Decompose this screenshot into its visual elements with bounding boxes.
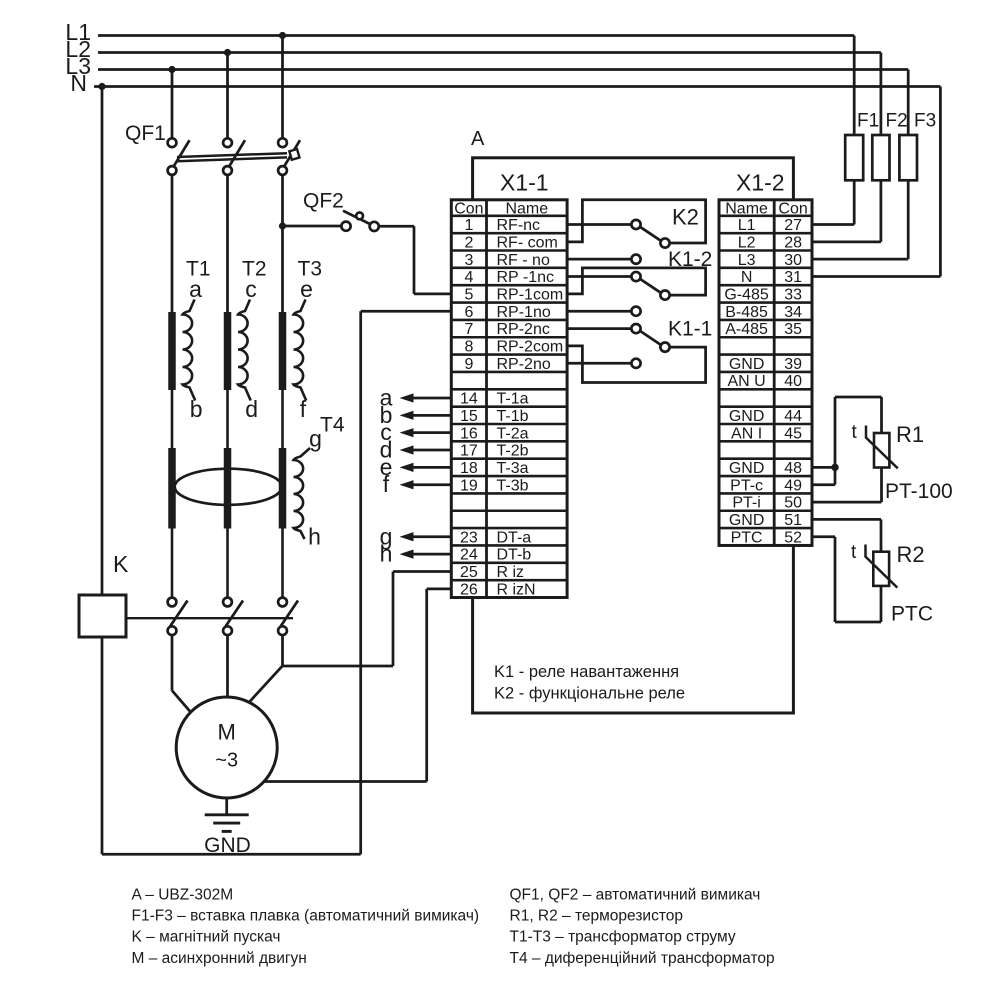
svg-text:35: 35 (784, 321, 802, 338)
svg-text:T-1b: T-1b (497, 408, 529, 425)
svg-text:Name: Name (505, 200, 548, 217)
svg-text:RP-2nc: RP-2nc (497, 321, 550, 338)
svg-text:N: N (741, 269, 753, 286)
svg-text:16: 16 (460, 425, 478, 442)
svg-text:48: 48 (784, 460, 802, 477)
svg-text:24: 24 (460, 547, 478, 564)
svg-text:L3: L3 (738, 252, 756, 269)
svg-text:g: g (309, 426, 322, 452)
svg-text:f: f (383, 471, 390, 497)
svg-text:33: 33 (784, 286, 802, 303)
svg-text:T1-T3 – трансформатор струму: T1-T3 – трансформатор струму (510, 929, 736, 946)
svg-text:GND: GND (729, 356, 765, 373)
svg-text:DT-a: DT-a (497, 529, 532, 546)
svg-text:G-485: G-485 (724, 286, 769, 303)
svg-text:30: 30 (784, 252, 802, 269)
svg-text:h: h (308, 524, 321, 550)
svg-text:Name: Name (725, 200, 768, 217)
svg-text:40: 40 (784, 373, 802, 390)
svg-text:QF1: QF1 (125, 122, 166, 145)
svg-text:e: e (300, 276, 313, 302)
svg-text:R2: R2 (897, 542, 925, 567)
svg-text:GND: GND (729, 408, 765, 425)
svg-text:L2: L2 (738, 234, 756, 251)
svg-text:A – UBZ-302M: A – UBZ-302M (132, 887, 234, 904)
svg-text:F1-F3 – вставка плавка (автома: F1-F3 – вставка плавка (автоматичний вим… (132, 908, 480, 925)
svg-text:9: 9 (464, 356, 473, 373)
svg-text:PT-i: PT-i (732, 495, 760, 512)
svg-text:7: 7 (464, 321, 473, 338)
svg-text:RF-nc: RF-nc (497, 217, 541, 234)
svg-text:a: a (189, 276, 202, 302)
svg-text:T-2b: T-2b (497, 443, 529, 460)
svg-text:F1: F1 (857, 111, 879, 132)
svg-text:19: 19 (460, 477, 478, 494)
svg-text:T4: T4 (320, 414, 345, 437)
svg-text:51: 51 (784, 512, 802, 529)
svg-text:49: 49 (784, 477, 802, 494)
svg-text:RP-1com: RP-1com (497, 286, 564, 303)
svg-text:QF2: QF2 (303, 190, 344, 213)
svg-text:8: 8 (464, 339, 473, 356)
svg-text:K2: K2 (672, 205, 699, 230)
svg-text:4: 4 (464, 269, 473, 286)
svg-text:2: 2 (464, 234, 473, 251)
svg-text:b: b (190, 396, 203, 422)
svg-text:X1-2: X1-2 (736, 170, 785, 196)
svg-text:L1: L1 (738, 217, 756, 234)
svg-text:A-485: A-485 (725, 321, 768, 338)
svg-text:GND: GND (729, 512, 765, 529)
svg-text:45: 45 (784, 425, 802, 442)
svg-text:RP-2no: RP-2no (497, 356, 551, 373)
svg-text:18: 18 (460, 460, 478, 477)
svg-text:Con: Con (454, 200, 483, 217)
svg-text:PTC: PTC (731, 529, 763, 546)
svg-text:K: K (113, 551, 129, 577)
svg-text:RP -1nc: RP -1nc (497, 269, 555, 286)
svg-text:T-3b: T-3b (497, 477, 529, 494)
svg-text:T-1a: T-1a (497, 391, 529, 408)
svg-text:R izN: R izN (497, 581, 536, 598)
svg-text:RP-2com: RP-2com (497, 339, 564, 356)
svg-text:F3: F3 (914, 111, 936, 132)
svg-text:K1 - реле навантаження: K1 - реле навантаження (494, 663, 679, 681)
svg-text:AN I: AN I (731, 425, 762, 442)
svg-text:f: f (300, 396, 307, 422)
svg-text:17: 17 (460, 443, 478, 460)
svg-text:PT-c: PT-c (730, 477, 763, 494)
svg-text:25: 25 (460, 564, 478, 581)
svg-text:GND: GND (729, 460, 765, 477)
svg-text:AN U: AN U (727, 373, 765, 390)
svg-text:15: 15 (460, 408, 478, 425)
svg-text:h: h (380, 541, 393, 567)
svg-text:B-485: B-485 (725, 304, 768, 321)
svg-text:RP-1no: RP-1no (497, 304, 551, 321)
svg-text:6: 6 (464, 304, 473, 321)
svg-text:3: 3 (464, 252, 473, 269)
svg-text:26: 26 (460, 581, 478, 598)
svg-text:GND: GND (204, 834, 251, 857)
svg-text:34: 34 (784, 304, 802, 321)
svg-text:R1: R1 (896, 422, 924, 447)
svg-text:M: M (218, 720, 236, 745)
svg-text:c: c (245, 276, 257, 302)
svg-text:28: 28 (784, 234, 802, 251)
svg-text:~3: ~3 (215, 750, 238, 772)
svg-text:T-3a: T-3a (497, 460, 529, 477)
svg-text:d: d (245, 396, 258, 422)
svg-text:M – асинхронний двигун: M – асинхронний двигун (132, 950, 307, 967)
svg-text:50: 50 (784, 495, 802, 512)
svg-text:R1, R2 – терморезистор: R1, R2 – терморезистор (510, 908, 684, 925)
svg-text:39: 39 (784, 356, 802, 373)
svg-text:K – магнітний пускач: K – магнітний пускач (132, 929, 281, 946)
svg-text:31: 31 (784, 269, 802, 286)
svg-text:DT-b: DT-b (497, 547, 532, 564)
svg-text:Con: Con (778, 200, 807, 217)
svg-text:RF- com: RF- com (497, 234, 558, 251)
svg-text:PTC: PTC (891, 603, 933, 626)
svg-text:R iz: R iz (497, 564, 525, 581)
svg-text:5: 5 (464, 286, 473, 303)
svg-text:K2 - функціональне реле: K2 - функціональне реле (494, 685, 685, 703)
svg-text:44: 44 (784, 408, 802, 425)
svg-text:27: 27 (784, 217, 802, 234)
svg-text:t: t (852, 422, 858, 443)
svg-text:RF - no: RF - no (497, 252, 550, 269)
svg-text:T4 – диференційний трансформат: T4 – диференційний трансформатор (510, 950, 775, 967)
svg-text:N: N (70, 70, 87, 96)
svg-text:K1-2: K1-2 (668, 248, 712, 271)
svg-text:X1-1: X1-1 (500, 170, 549, 196)
svg-text:QF1, QF2 – автоматичний вимика: QF1, QF2 – автоматичний вимикач (510, 887, 761, 904)
svg-text:A: A (471, 128, 485, 150)
svg-text:K1-1: K1-1 (668, 318, 712, 341)
svg-text:23: 23 (460, 529, 478, 546)
svg-text:T-2a: T-2a (497, 425, 529, 442)
svg-text:14: 14 (460, 391, 478, 408)
svg-text:t: t (851, 542, 857, 563)
svg-text:52: 52 (784, 529, 802, 546)
svg-text:F2: F2 (886, 111, 908, 132)
svg-text:1: 1 (464, 217, 473, 234)
svg-text:PT-100: PT-100 (885, 480, 953, 503)
